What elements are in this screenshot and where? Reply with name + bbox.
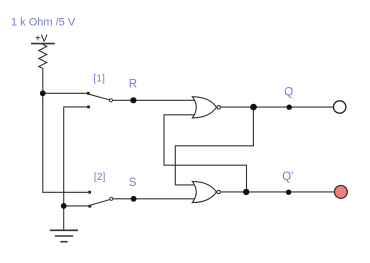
svg-text:Q': Q'	[282, 171, 293, 183]
svg-text:1 k Ohm /5 V: 1 k Ohm /5 V	[11, 17, 76, 29]
svg-text:R: R	[129, 79, 137, 91]
svg-text:[1]: [1]	[93, 72, 105, 84]
svg-text:[2]: [2]	[94, 171, 106, 183]
svg-text:Q: Q	[284, 86, 293, 98]
svg-text:S: S	[129, 177, 137, 189]
svg-text:+V: +V	[35, 34, 48, 45]
